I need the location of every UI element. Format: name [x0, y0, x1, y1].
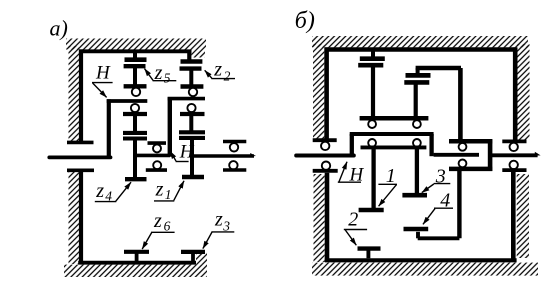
hatching top band of frame a: [66, 39, 206, 50]
label z4 underline: [95, 201, 117, 203]
gear 3 shaft b: [415, 147, 419, 193]
label 2 leader arrow b: [345, 230, 356, 245]
svg-text:а): а): [50, 16, 68, 41]
gear z4 bottom rim T-bar: [125, 177, 147, 181]
link bottom horizontal b: [418, 236, 460, 240]
frame left wall lower b: [325, 173, 330, 262]
label H underline b: [338, 181, 361, 183]
left bearing circle upper b: [321, 142, 329, 150]
gear z3 rim bar: [181, 250, 205, 254]
sleeve top plate b: [449, 139, 492, 144]
label z5 underline: [153, 80, 177, 82]
planet rim bar col2 b: [404, 80, 429, 85]
planet bearing circle col2 upper b: [413, 120, 421, 128]
label z1 leader arrow: [174, 181, 184, 201]
hatching left lower wall a: [69, 171, 80, 264]
input shaft b: [296, 154, 354, 158]
frame right wall upper b: [513, 47, 518, 140]
planet gear rim bar meshing z5: [124, 64, 146, 68]
sleeve right wall b: [488, 139, 493, 171]
gear z2 rim bar (fixed): [181, 59, 203, 64]
gear 4 stub b: [416, 232, 420, 239]
hatching bottom-right patch a: [196, 252, 207, 265]
output shaft a: [193, 154, 255, 158]
svg-text:H: H: [95, 63, 111, 84]
link stub col2 b: [416, 68, 420, 74]
output shaft end tip a: [250, 153, 256, 156]
fixed gear stub to frame col1 b: [371, 52, 375, 58]
carrier H right vertical b: [429, 134, 433, 156]
frame bottom line a: [78, 261, 196, 265]
bearing circle colA above arm: [132, 88, 140, 96]
left bearing cap upper b: [313, 138, 337, 142]
mid bearing circle lower a: [153, 161, 161, 169]
label z4 leader arrow: [116, 182, 131, 201]
label z3 underline: [212, 231, 235, 233]
link lower vertical b: [457, 169, 461, 238]
gear z1 top rim: [179, 136, 205, 140]
gear 2 stub to frame b: [366, 249, 370, 259]
gear 4 rim T-bar b: [404, 227, 429, 231]
svg-text:z: z: [155, 179, 164, 201]
upper gear rim bar col2 b: [406, 73, 431, 78]
closing link top horizontal b: [416, 66, 461, 70]
hatching bottom band b: [312, 263, 538, 276]
planet bearing circle col1 upper b: [368, 120, 376, 128]
planet gear rim bar meshing z2: [180, 66, 202, 70]
mid axis segment a: [135, 154, 170, 158]
gear z5 rim bar (fixed): [125, 57, 147, 62]
label H leader arrow b: [339, 162, 347, 182]
gear z4 body: [133, 139, 137, 180]
hatching top-right patch beyond frame end a: [192, 50, 206, 58]
output shaft end tip b: [535, 152, 541, 156]
bearing circle colB above arm: [189, 88, 197, 96]
svg-text:z: z: [213, 58, 222, 80]
label z1 underline: [154, 200, 174, 202]
planet bearing long T-bar upper b: [360, 116, 429, 121]
output bearing cap lower a: [223, 168, 246, 172]
gear z3 stub to frame: [191, 252, 195, 261]
svg-text:2: 2: [348, 209, 358, 231]
output bearing circle lower a: [229, 161, 237, 169]
svg-text:1: 1: [165, 187, 172, 202]
gear 1 shaft b: [371, 147, 375, 208]
planet bearing circle col1 lower b: [368, 139, 376, 147]
label z2 leader arrow: [205, 70, 212, 78]
svg-text:z: z: [214, 209, 223, 231]
right bearing circle upper b: [510, 143, 518, 151]
planet rim bar col1 b: [358, 63, 383, 68]
bearing cap T-bar colA above arm: [124, 84, 147, 88]
planet gear lower rim colA: [123, 131, 147, 135]
frame right wall lower b: [511, 172, 516, 262]
planet gear T-bar colA: [123, 112, 147, 116]
mid bearing cap lower a: [146, 168, 167, 172]
label 2 underline b: [344, 229, 367, 231]
output shaft b: [491, 153, 538, 157]
carrier H right arm a: [168, 97, 205, 101]
svg-text:5: 5: [164, 71, 171, 86]
gear z5 stub to frame: [133, 53, 137, 59]
label H2 underline: [176, 161, 189, 163]
carrier H arm b: [350, 132, 434, 136]
svg-text:2: 2: [224, 68, 231, 83]
bearing circle colA below arm: [131, 104, 139, 112]
label 3 leader arrow b: [422, 184, 434, 193]
frame top line a: [79, 49, 192, 53]
input shaft a: [49, 155, 110, 159]
frame left wall upper b: [324, 47, 329, 140]
svg-text:z: z: [153, 210, 162, 232]
right bearing cap upper b: [502, 139, 526, 143]
hatching top band b: [312, 36, 528, 47]
frame bearing cap upper-left a: [67, 141, 94, 145]
carrier H right vertical a: [168, 97, 172, 157]
hatching left upper wall b: [313, 44, 324, 140]
planet gear body colB: [189, 114, 193, 133]
planet bearing long bar lower b: [361, 145, 427, 149]
svg-text:3: 3: [222, 218, 230, 233]
frame bottom line b: [325, 258, 517, 262]
frame left wall lower a: [79, 172, 83, 265]
gear z1 bottom rim T-bar: [182, 175, 204, 179]
mid bearing circle upper a: [153, 144, 161, 152]
sleeve bottom plate b: [449, 167, 492, 172]
frame right stub a: [187, 51, 191, 60]
planet gear T-bar colB: [180, 112, 205, 116]
svg-text:6: 6: [164, 218, 171, 233]
hatching left upper wall a: [69, 46, 80, 143]
mid bearing cap upper a: [148, 141, 167, 145]
svg-text:б): б): [295, 8, 315, 34]
label z6 leader arrow: [142, 232, 152, 249]
left bearing circle lower b: [322, 162, 330, 170]
planet bearing circle col2 lower b: [413, 139, 421, 147]
frame bearing cap lower-left a: [67, 169, 94, 173]
hatching right lower wall b: [517, 174, 529, 258]
label 1 underline b: [378, 183, 397, 185]
left bearing cap lower b: [313, 169, 338, 173]
label 3 underline b: [434, 183, 451, 185]
sleeve bearing circle lower b: [459, 160, 467, 168]
mid axis segment b: [434, 153, 479, 157]
planet shaft col1 b: [371, 65, 375, 116]
gear z6 rim bar: [124, 250, 149, 254]
sleeve bearing circle upper b: [459, 143, 467, 151]
svg-text:z: z: [95, 180, 104, 202]
carrier H left vertical b: [350, 134, 354, 157]
frame left wall upper a: [79, 49, 83, 143]
planet shaft upper colB: [189, 69, 193, 87]
gear z6 stub to frame: [135, 252, 139, 261]
gear z4 top rim: [123, 136, 147, 140]
planet shaft col2 b: [414, 82, 418, 116]
frame top line b: [325, 47, 518, 51]
label z6 underline: [151, 231, 174, 233]
gear z1 body: [190, 138, 194, 177]
label 4 underline b: [434, 207, 453, 209]
label z2 underline: [211, 78, 235, 80]
carrier H left vertical a: [107, 99, 111, 159]
label 1 leader arrow b: [379, 185, 397, 207]
label z3 leader arrow: [203, 232, 212, 249]
gear 1 rim T-bar b: [359, 208, 384, 213]
gear 2 rim T-bar b: [358, 246, 381, 250]
label H2 leader arrow: [170, 151, 176, 161]
label 4 leader arrow b: [423, 209, 435, 225]
hatching right upper wall b: [517, 44, 529, 140]
closing link right vertical b: [458, 68, 463, 141]
label H leader arrow: [93, 83, 107, 97]
fixed gear rim bar col1 b: [360, 56, 385, 61]
carrier H left arm a: [107, 99, 148, 103]
planet gear body colA: [133, 114, 137, 133]
right bearing circle lower b: [510, 161, 518, 169]
svg-text:H: H: [179, 141, 195, 162]
hatching left lower wall b: [314, 174, 325, 262]
output bearing cap upper a: [223, 140, 246, 144]
bearing circle colB below arm: [187, 104, 195, 112]
right bearing cap lower b: [502, 168, 526, 172]
hatching bottom band a: [64, 265, 207, 277]
label H underline: [92, 82, 113, 84]
gear 3 rim T-bar b: [402, 193, 427, 198]
planet gear lower rim colB: [179, 130, 205, 134]
bearing cap T-bar colB above arm: [181, 84, 204, 89]
output bearing circle upper a: [230, 143, 238, 151]
label z5 leader arrow: [145, 69, 154, 81]
planet shaft upper colA: [133, 66, 137, 86]
